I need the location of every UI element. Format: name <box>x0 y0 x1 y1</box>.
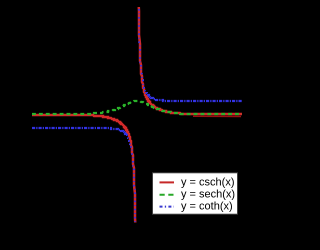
curve coth positive steep part dash-dot <box>138 0 148 94</box>
svg-text:y = sech(x): y = sech(x) <box>181 189 235 201</box>
svg-text:y = csch(x): y = csch(x) <box>181 176 234 188</box>
artifact red fringe under right tail <box>193 115 241 117</box>
legend handle sech <box>160 194 175 196</box>
legend handle csch <box>160 181 175 183</box>
legend handle coth <box>160 206 175 208</box>
legend box <box>153 173 238 214</box>
curve coth negative steep part dash-dot <box>126 135 136 236</box>
curve sech dashed <box>32 101 242 114</box>
curve coth negative flat part dash-dot <box>32 128 126 135</box>
curve coth positive flat part dash-dot <box>148 94 242 101</box>
curve csch positive branch <box>138 0 242 114</box>
svg-text:y = coth(x): y = coth(x) <box>181 201 233 213</box>
curve csch negative branch <box>32 115 136 236</box>
